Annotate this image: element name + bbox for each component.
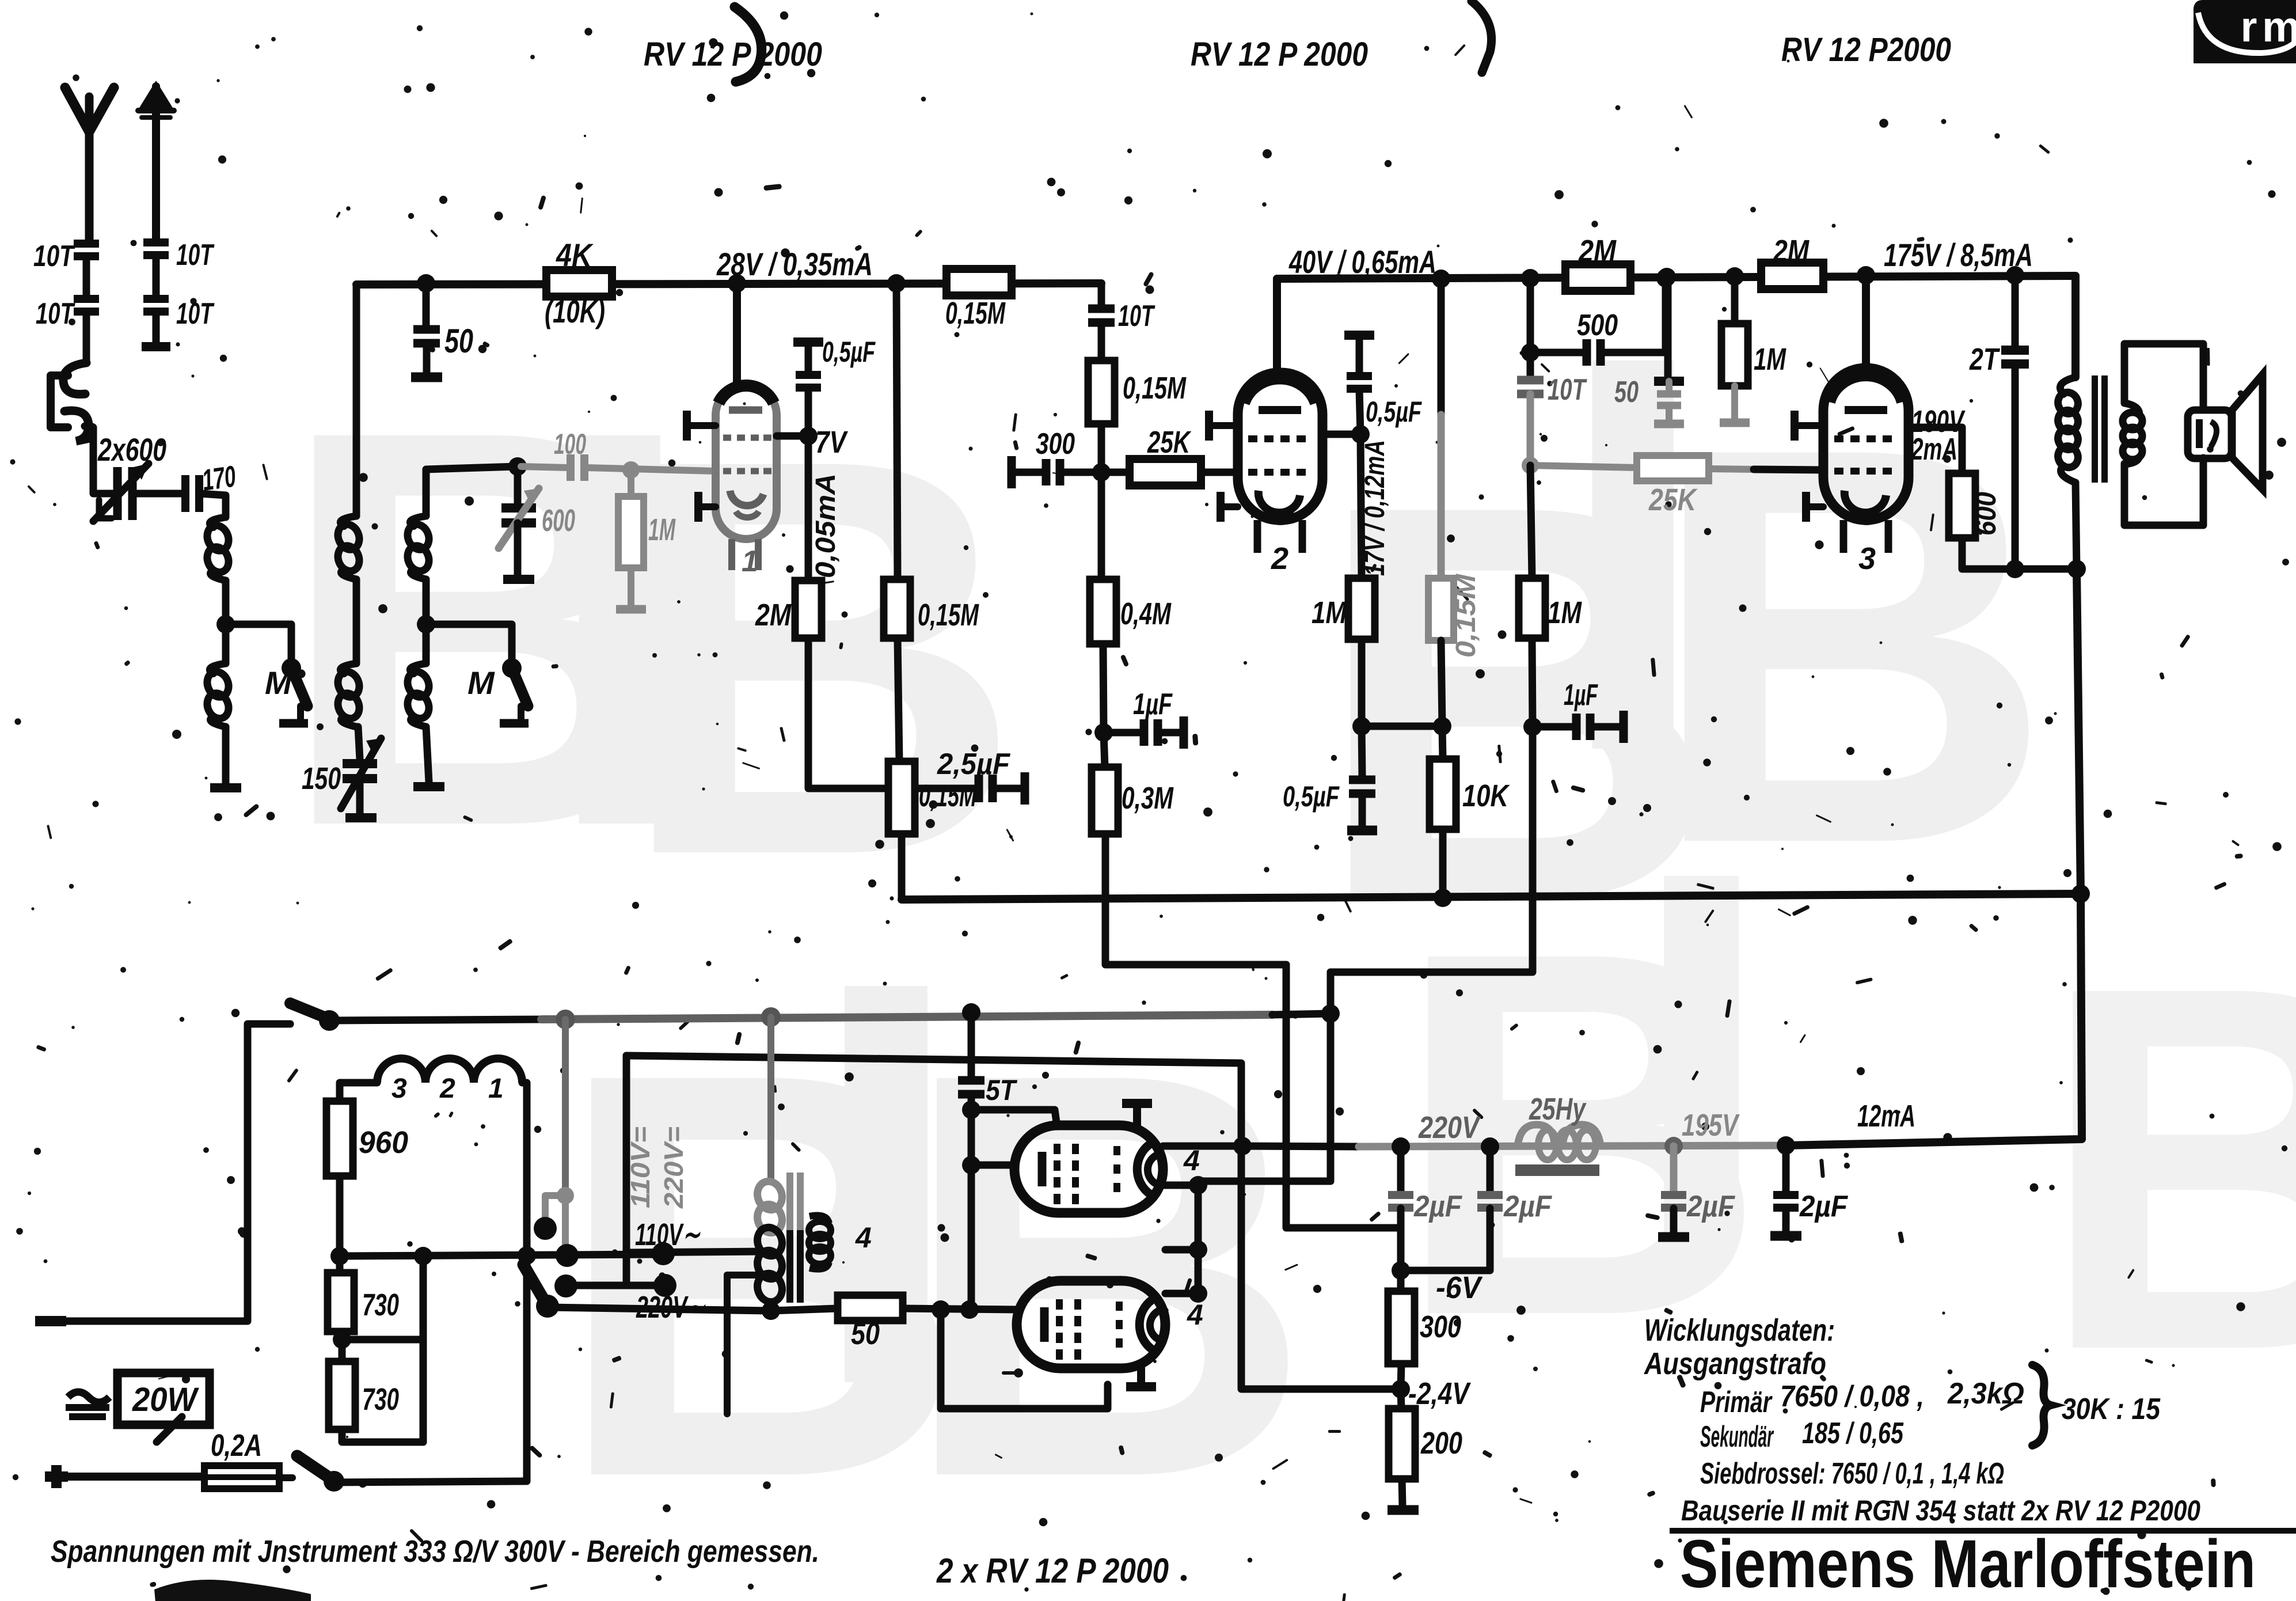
node bbox=[1392, 1137, 1410, 1156]
capacitor 500 bbox=[1521, 343, 1539, 362]
cathode return loop bbox=[941, 1310, 1108, 1409]
resistor 0,15M (lower) bbox=[888, 761, 915, 834]
svg-text:2µF: 2µF bbox=[1503, 1190, 1552, 1223]
node -6V bbox=[1392, 1261, 1410, 1280]
capacitor 0,5uF to ground bbox=[1362, 726, 1362, 776]
svg-text:0,4M: 0,4M bbox=[1120, 597, 1172, 631]
node 1uF tap bbox=[1094, 723, 1113, 742]
winding right lead / mains riser bbox=[522, 1083, 527, 1480]
svg-text:25K: 25K bbox=[1648, 483, 1698, 517]
node bbox=[1189, 1284, 1207, 1303]
wire switch to riser bbox=[330, 1481, 527, 1482]
capacitor 10T (ant1 upper) bbox=[74, 240, 99, 248]
svg-text:50: 50 bbox=[444, 323, 473, 360]
triode 1 (RV12P2000) bbox=[716, 385, 777, 570]
svg-text:10T: 10T bbox=[33, 240, 75, 273]
node 7V bbox=[799, 427, 818, 445]
capacitor 2uF #1 bbox=[1397, 1147, 1405, 1191]
capacitor 100 (coupling to tube 1 grid) bbox=[521, 466, 567, 468]
node (ant coil tap) bbox=[216, 615, 235, 633]
node bbox=[1481, 1137, 1499, 1156]
svg-text:0,3M: 0,3M bbox=[1122, 781, 1174, 815]
capacitor 170 bbox=[181, 475, 189, 512]
svg-text:B: B bbox=[898, 953, 1314, 1596]
svg-text:30K : 15: 30K : 15 bbox=[2062, 1393, 2161, 1426]
resistor 730 (second) bbox=[329, 1361, 355, 1429]
svg-text:300: 300 bbox=[1420, 1310, 1461, 1344]
capacitor 1uF bbox=[1104, 729, 1141, 737]
wire bbox=[153, 256, 160, 298]
svg-text:M: M bbox=[467, 665, 495, 701]
svg-text:RV 12 P 2000: RV 12 P 2000 bbox=[1191, 36, 1368, 73]
scratch mark ) over label 1 bbox=[735, 7, 762, 82]
svg-text:960: 960 bbox=[359, 1125, 408, 1160]
svg-text:220V: 220V bbox=[1418, 1110, 1481, 1145]
wire bbox=[133, 490, 184, 498]
wire tube3 cathode to 600 bbox=[1909, 427, 1962, 473]
node grey trafo drop bbox=[761, 1007, 781, 1027]
svg-text:2x600: 2x600 bbox=[97, 431, 166, 468]
svg-text:1: 1 bbox=[488, 1073, 504, 1104]
wire 25K to tube2 grid bbox=[1201, 469, 1239, 476]
svg-text:4: 4 bbox=[855, 1221, 872, 1254]
svg-text:2µF: 2µF bbox=[1799, 1190, 1848, 1223]
svg-text:25Hy: 25Hy bbox=[1529, 1092, 1587, 1126]
ground bar bbox=[1388, 1505, 1419, 1515]
svg-text:0,15M: 0,15M bbox=[1451, 574, 1481, 658]
node bbox=[762, 1302, 780, 1320]
node bbox=[2006, 266, 2024, 284]
svg-text:200: 200 bbox=[1420, 1426, 1462, 1460]
node rail 1M bbox=[1725, 267, 1744, 286]
triode 3 (RV12P2000) bbox=[1823, 368, 1909, 553]
svg-text:2µF: 2µF bbox=[1686, 1190, 1735, 1223]
node grid2 bbox=[1092, 463, 1111, 481]
node bbox=[414, 1247, 432, 1265]
plus terminal bbox=[45, 1465, 68, 1488]
svg-text:0,15M: 0,15M bbox=[918, 598, 979, 632]
node bbox=[962, 1101, 980, 1119]
HT supply bus bbox=[902, 894, 2081, 900]
resistor 1M vertical bbox=[1731, 276, 1739, 324]
svg-text:0,15M: 0,15M bbox=[945, 296, 1006, 331]
rule bbox=[1670, 1528, 2296, 1534]
watermark BTB upper-right bbox=[1313, 238, 2054, 1018]
selector contact dots bbox=[534, 1217, 557, 1240]
svg-text:7V: 7V bbox=[815, 425, 848, 460]
capacitor 2uF #3 bbox=[1670, 1146, 1678, 1191]
selector tap wires bbox=[340, 1254, 663, 1256]
coil L3a (grid coil upper) bbox=[410, 516, 426, 526]
wire anode drop tube2 bbox=[1273, 279, 1281, 375]
selector link vertical bbox=[420, 1256, 427, 1442]
wire minus to switch bbox=[64, 1024, 290, 1321]
svg-text:25K: 25K bbox=[1147, 425, 1192, 460]
resistor 200 bbox=[1389, 1409, 1415, 1479]
switch M1 bbox=[282, 658, 301, 678]
wire bbox=[222, 727, 230, 783]
svg-text:1M: 1M bbox=[1548, 595, 1582, 630]
winding left lead bbox=[340, 1083, 377, 1101]
capacitor 10T (ant2 lower) bbox=[143, 295, 169, 303]
chain from rail corner: 10T cap + 0,15M + 0,4M + 0,3M bbox=[1098, 283, 1105, 305]
coil L3b (grid coil lower) bbox=[423, 624, 430, 663]
node 2,5uF junction bbox=[890, 779, 908, 798]
node 50-cap tap bbox=[417, 274, 435, 293]
capacitor 5T bbox=[968, 1012, 975, 1077]
node rail tube3 bbox=[1857, 266, 1875, 284]
wire bbox=[423, 579, 430, 624]
svg-text:10T: 10T bbox=[36, 297, 75, 331]
wire end bar bbox=[345, 813, 377, 822]
wire link bbox=[1362, 723, 1442, 730]
svg-text:1µF: 1µF bbox=[1133, 688, 1173, 721]
node bbox=[1664, 1137, 1683, 1155]
node bbox=[1656, 269, 1675, 287]
svg-text:50: 50 bbox=[851, 1317, 880, 1351]
capacitor 0,5uF (tube1 screen) bbox=[793, 337, 823, 347]
switch M2 bbox=[502, 658, 522, 678]
branch 110V to trafo bbox=[626, 1251, 766, 1253]
svg-text:2,3kΩ: 2,3kΩ bbox=[1947, 1377, 2024, 1410]
node -2,4V bbox=[1392, 1380, 1410, 1398]
svg-text:0,5µF: 0,5µF bbox=[822, 336, 876, 368]
tube1 lower-left terminal bbox=[698, 503, 716, 510]
node rail bbox=[1658, 268, 1676, 286]
node bbox=[2006, 560, 2024, 578]
selector blade bbox=[523, 1265, 548, 1306]
resistor 600 bbox=[1949, 473, 1975, 538]
svg-text:20W: 20W bbox=[132, 1381, 199, 1418]
svg-text:Siemens Marloffstein: Siemens Marloffstein bbox=[1680, 1526, 2256, 1601]
svg-text:r: r bbox=[2241, 3, 2257, 51]
node (grid coil tap) bbox=[417, 615, 435, 633]
node bbox=[1521, 269, 1539, 287]
output transformer bbox=[2071, 276, 2080, 377]
svg-text:2mA: 2mA bbox=[1911, 432, 1957, 466]
svg-text:2,5µF: 2,5µF bbox=[937, 748, 1010, 781]
svg-text:12mA: 12mA bbox=[1857, 1099, 1915, 1133]
svg-text:600: 600 bbox=[542, 503, 575, 538]
svg-text:1M: 1M bbox=[648, 513, 676, 547]
resistor 1M (tube1 grid leak) bbox=[628, 470, 634, 496]
svg-text:Ausgangstrafo: Ausgangstrafo bbox=[1643, 1346, 1826, 1381]
svg-text:2M: 2M bbox=[755, 598, 792, 632]
wire down to 2M bbox=[805, 436, 812, 581]
tube A heater lead bbox=[1158, 1182, 1198, 1189]
tube3 upper-left terminal bbox=[1795, 422, 1823, 429]
coupling bracket bbox=[51, 375, 68, 427]
svg-text:100: 100 bbox=[554, 428, 586, 460]
tube2 upper-left terminal bbox=[1209, 422, 1238, 429]
svg-text:10T: 10T bbox=[176, 238, 215, 272]
node rail stage2 bbox=[1432, 270, 1450, 288]
node grey selector drop bbox=[556, 1010, 575, 1029]
wire to tube3 grid bbox=[1709, 469, 1754, 469]
svg-text:7650 / 0,08 ,: 7650 / 0,08 , bbox=[1780, 1380, 1924, 1413]
grid coil top corner wire bbox=[426, 466, 518, 516]
svg-text:220V=: 220V= bbox=[659, 1126, 689, 1209]
svg-text:B: B bbox=[2038, 878, 2296, 1458]
wire bbox=[426, 727, 429, 782]
wire AVC return down bbox=[1331, 727, 1533, 972]
speaker loop wiring bbox=[2124, 344, 2203, 410]
svg-text:2M: 2M bbox=[1578, 234, 1617, 268]
tube A plate lead to filter bbox=[1163, 1143, 1242, 1150]
capacitor 1uF (AVC) bbox=[1533, 723, 1573, 731]
svg-text:10K: 10K bbox=[1462, 779, 1510, 813]
resistor 0,15M (detector load) bbox=[1088, 361, 1115, 424]
svg-text:4K: 4K bbox=[556, 237, 594, 273]
wire antenna input to trimmer bbox=[85, 426, 115, 494]
capacitor 10T (ant2 upper) bbox=[143, 238, 169, 246]
transformer secondary bbox=[2124, 403, 2139, 413]
svg-text:1: 1 bbox=[742, 545, 758, 578]
svg-text:0,05mA: 0,05mA bbox=[811, 473, 841, 578]
fuse 0,2A bbox=[204, 1466, 279, 1489]
tube1 upper-left terminal bbox=[687, 422, 716, 429]
node 17V bbox=[1351, 425, 1370, 443]
ink smudge bottom edge bbox=[154, 1580, 311, 1601]
capacitor 2uF #2 bbox=[1487, 1147, 1494, 1191]
svg-text:10T: 10T bbox=[1548, 373, 1587, 407]
wire bbox=[153, 312, 160, 344]
rectifier tube A (RV12P2000) bbox=[1014, 1125, 1163, 1213]
node bbox=[1433, 717, 1451, 735]
watermark BTB lower-left bbox=[553, 861, 1314, 1596]
svg-text:500: 500 bbox=[1577, 309, 1618, 342]
wire 220V tap bbox=[548, 1307, 769, 1311]
capacitor 2uF #4 bbox=[1782, 1145, 1790, 1191]
resistor 2M (tube1 screen feed) bbox=[795, 581, 822, 638]
svg-text:0,15M: 0,15M bbox=[919, 779, 977, 813]
resistor 25K bbox=[1101, 469, 1130, 476]
svg-text:195V: 195V bbox=[1682, 1108, 1740, 1143]
coupling hook upper bbox=[63, 363, 86, 394]
svg-text:28V / 0,35mA: 28V / 0,35mA bbox=[716, 246, 873, 282]
heater column bbox=[1195, 1185, 1202, 1293]
node 10K/bus bbox=[1434, 889, 1452, 907]
capacitor 50 (rail bypass) bbox=[423, 283, 430, 326]
resistor 0,15M (anode load 1) bbox=[884, 579, 910, 638]
svg-text:-6V: -6V bbox=[1436, 1270, 1483, 1305]
svg-text:1M: 1M bbox=[1312, 595, 1347, 630]
capacitor 50 grey bbox=[1664, 278, 1672, 380]
node bbox=[622, 461, 640, 479]
wire tube2 to node bbox=[1322, 431, 1360, 438]
node (grid circuit) bbox=[508, 457, 527, 476]
AC/DC symbol bbox=[68, 1392, 109, 1402]
wire tap to switch M2 bbox=[426, 624, 512, 661]
psu riser wire bbox=[1786, 569, 2082, 1145]
chain 0,15M grey + 10K (tube2 anode) bbox=[1438, 279, 1445, 415]
svg-text:4: 4 bbox=[1183, 1144, 1200, 1177]
wire anode drop tube1 bbox=[733, 283, 741, 387]
svg-text:600: 600 bbox=[1970, 492, 2002, 536]
node bbox=[1777, 1136, 1795, 1155]
resistor 25K grey bbox=[1637, 456, 1709, 481]
resistor 2M (stage3) bbox=[1761, 263, 1823, 289]
svg-text:m: m bbox=[2262, 3, 2296, 51]
trimmer capacitor 600 bbox=[514, 466, 522, 504]
wire tap to switch M1 bbox=[226, 624, 291, 661]
triode 2 (RV12P2000) bbox=[1238, 373, 1322, 553]
node bbox=[932, 1300, 950, 1319]
svg-text:10T: 10T bbox=[176, 297, 215, 331]
node rect plate bbox=[1233, 1137, 1252, 1155]
svg-text:300: 300 bbox=[1036, 427, 1075, 461]
wire 2M to junction bbox=[808, 638, 898, 788]
wire to coil A bbox=[200, 494, 226, 517]
HT rail stage1 bbox=[356, 283, 1101, 284]
tube2 lower-left terminal bbox=[1221, 503, 1238, 510]
svg-text:RV 12 P 2000: RV 12 P 2000 bbox=[644, 36, 822, 73]
minus terminal bbox=[35, 1316, 66, 1326]
svg-text:1µF: 1µF bbox=[1564, 678, 1598, 712]
watermark BTB lower-right bbox=[1393, 763, 2296, 1458]
svg-text:2 x RV 12 P 2000: 2 x RV 12 P 2000 bbox=[936, 1551, 1169, 1590]
resistor 10K bbox=[1430, 759, 1456, 829]
wire anode drop tube3 bbox=[1862, 275, 1870, 371]
svg-text:10T: 10T bbox=[1118, 299, 1155, 333]
resistor 4K bbox=[546, 270, 612, 297]
node rail/0,15M bbox=[887, 274, 906, 293]
wire end bar bbox=[210, 783, 241, 792]
node bbox=[1523, 718, 1542, 736]
svg-text:M: M bbox=[265, 665, 292, 701]
svg-text:I: I bbox=[1629, 763, 1773, 1342]
svg-text:2: 2 bbox=[439, 1073, 455, 1104]
node grey bbox=[1522, 457, 1539, 474]
node bbox=[1352, 717, 1371, 735]
coil L1b (antenna coil lower) bbox=[222, 624, 230, 663]
resistor 1M (tube2 grid2) bbox=[1348, 578, 1375, 639]
node bus/psu riser bbox=[2071, 885, 2090, 903]
capacitor 0,5uF (tube2) bbox=[1344, 331, 1374, 340]
wire tube1 to 7V node bbox=[777, 433, 808, 440]
node bbox=[960, 1300, 979, 1319]
autotransformer winding 3-2-1 bbox=[377, 1059, 522, 1083]
svg-text:(10K): (10K) bbox=[545, 293, 605, 329]
mains switch bbox=[319, 1010, 340, 1031]
scratch mark ) near label 2 bbox=[1472, 1, 1492, 73]
node bbox=[333, 1330, 351, 1349]
capacitor 10T bbox=[1088, 305, 1115, 313]
heater dist line bbox=[626, 1056, 1401, 1389]
wire grey to 25K bbox=[1530, 465, 1637, 468]
bias feed lines bbox=[1286, 965, 1401, 1265]
antenna 2 symbol (earth/counterpoise) bbox=[138, 81, 174, 111]
coupling hook lower bbox=[64, 411, 92, 441]
resistor 0,15M (coupling) bbox=[946, 269, 1012, 295]
wire 5T node to tube A grid bbox=[971, 1110, 1057, 1126]
node bbox=[330, 1247, 349, 1265]
trimmer capacitor 150 bbox=[358, 727, 360, 759]
coil L1a (antenna coil upper) bbox=[210, 517, 226, 528]
resistor 0,4M bbox=[1090, 579, 1116, 644]
tube B bottom cap terminal bbox=[1137, 1368, 1145, 1382]
svg-text:110V=: 110V= bbox=[625, 1126, 655, 1208]
svg-text:Spannungen mit Jnstrument 333: Spannungen mit Jnstrument 333 Ω/V 300V -… bbox=[51, 1534, 819, 1569]
svg-text:730: 730 bbox=[362, 1288, 399, 1322]
svg-text:1M: 1M bbox=[1754, 342, 1786, 377]
node bbox=[2067, 560, 2086, 578]
node 5T bbox=[962, 1003, 980, 1022]
svg-text:Sekundär: Sekundär bbox=[1700, 1420, 1774, 1454]
wire bbox=[353, 579, 360, 663]
capacitor 2,5uF bbox=[899, 785, 975, 792]
chain 0,15M + 0,15M from rail bbox=[896, 283, 898, 579]
svg-text:50: 50 bbox=[1614, 375, 1639, 409]
wire 0,3M to bias line bbox=[1105, 834, 1286, 965]
speaker bbox=[2188, 374, 2263, 490]
svg-text:2M: 2M bbox=[1773, 234, 1810, 268]
wire grid line to tube 1 bbox=[586, 468, 716, 471]
svg-text:2: 2 bbox=[1271, 541, 1288, 576]
capacitor 10T bbox=[1517, 376, 1544, 385]
svg-text:0,5µF: 0,5µF bbox=[1366, 396, 1422, 428]
wire bbox=[222, 581, 230, 624]
svg-text:730: 730 bbox=[362, 1382, 399, 1417]
svg-text:3: 3 bbox=[1858, 541, 1876, 576]
svg-text:2µF: 2µF bbox=[1413, 1190, 1462, 1223]
resistor 960 bbox=[326, 1101, 353, 1176]
node grey bbox=[557, 1187, 574, 1204]
wire antenna1 down bbox=[83, 312, 90, 363]
mains switch lower bbox=[324, 1471, 344, 1492]
svg-text:Siebdrossel: 7650 / 0,1 , 1,: Siebdrossel: 7650 / 0,1 , 1,4 kΩ bbox=[1700, 1457, 2004, 1490]
grid line stage2: end bar + capacitor 300 + 25K bbox=[1008, 456, 1016, 488]
svg-text:5T: 5T bbox=[986, 1074, 1018, 1106]
wire to HT bus bbox=[898, 834, 906, 900]
svg-text:4: 4 bbox=[1187, 1299, 1203, 1331]
watermark BTB upper-left bbox=[276, 313, 1024, 972]
heater secondary 4V bbox=[809, 1216, 829, 1224]
svg-text:RV 12 P2000: RV 12 P2000 bbox=[1781, 31, 1951, 69]
ground bar bbox=[411, 373, 442, 382]
svg-text:Wicklungsdaten:: Wicklungsdaten: bbox=[1644, 1313, 1835, 1348]
rectifier tube B (RV12P2000) bbox=[1017, 1281, 1165, 1368]
svg-text:0,5µF: 0,5µF bbox=[1283, 780, 1340, 813]
wire plus to fuse bbox=[68, 1473, 204, 1481]
svg-text:2T: 2T bbox=[1969, 342, 2000, 377]
node bbox=[962, 1156, 980, 1174]
svg-text:0,15M: 0,15M bbox=[1123, 371, 1187, 405]
capacitor 10T (ant1 lower) bbox=[74, 295, 99, 303]
tube A top cap terminal bbox=[1122, 1099, 1152, 1108]
choke 25Hy bbox=[1518, 1125, 1554, 1147]
node bbox=[1189, 1240, 1207, 1259]
svg-text:Primär: Primär bbox=[1700, 1386, 1773, 1419]
svg-text:0,2A: 0,2A bbox=[211, 1428, 262, 1463]
resistor 2M (stage2 coupling) bbox=[1565, 264, 1630, 291]
wire to tube A nose bbox=[971, 1162, 1014, 1169]
HT rail stage2/3 bbox=[1277, 276, 2075, 279]
selector drop wire bbox=[727, 1272, 768, 1278]
selector grey feed bbox=[562, 1019, 569, 1196]
coil L2b (RF coil lower) bbox=[340, 663, 356, 674]
resistor 730 bbox=[328, 1273, 354, 1331]
wire end bar bbox=[142, 342, 170, 351]
wire bbox=[83, 257, 90, 299]
svg-text:185 / 0,65: 185 / 0,65 bbox=[1802, 1417, 1904, 1450]
svg-text:3: 3 bbox=[391, 1073, 407, 1104]
heater transformer bbox=[767, 1017, 774, 1181]
antenna 1 symbol bbox=[65, 88, 114, 132]
resistor 1M (AVC) bbox=[1530, 465, 1532, 578]
svg-text:150: 150 bbox=[302, 761, 341, 796]
trimmer capacitor 2x600 bbox=[113, 467, 122, 520]
